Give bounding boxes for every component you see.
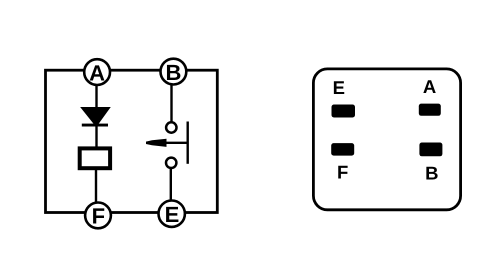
svg-text:B: B [165,60,181,85]
terminal E [159,201,185,228]
pin slot F [331,143,354,156]
wire coil to F [95,170,97,214]
wire outer loop (relay case) [46,70,218,212]
svg-text:A: A [89,61,105,86]
relay coil L1 [80,148,110,168]
connector body [313,69,460,210]
switch blade [186,122,188,164]
terminal B [161,59,187,85]
diode CR1 [82,108,109,127]
switch arm arrow [146,139,188,147]
pin slot B [419,143,442,157]
svg-text:E: E [333,77,345,98]
svg-text:F: F [92,204,105,229]
wire A to diode [95,72,97,110]
contact point upper (B side) [166,122,176,132]
wire diode to coil [95,125,97,148]
terminal F [85,203,111,229]
pin slot A [419,104,441,116]
contact point lower (E side) [166,158,176,168]
svg-text:B: B [425,162,438,183]
terminal A [84,59,110,85]
wire B to contact [170,72,172,124]
pin slot E [332,105,356,118]
wire contact to E [170,167,172,213]
svg-text:F: F [337,162,348,183]
svg-text:E: E [165,202,180,227]
svg-text:A: A [423,76,436,97]
